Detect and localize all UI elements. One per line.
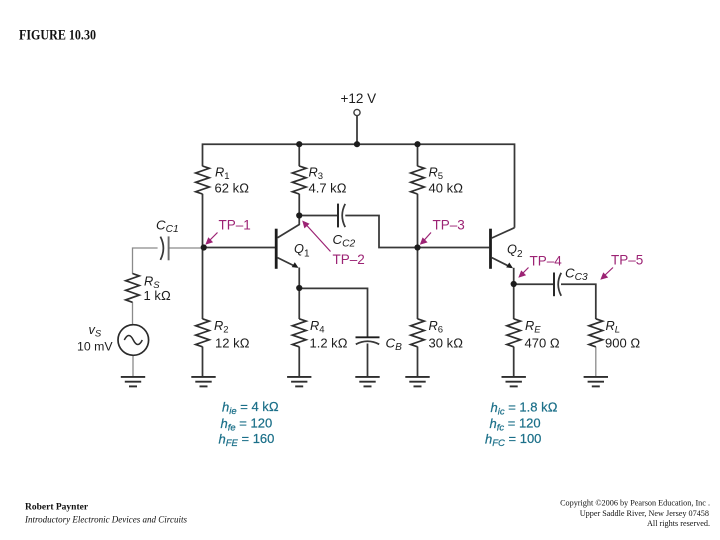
svg-text:Robert Paynter: Robert Paynter (25, 503, 89, 513)
svg-text:hFE = 160: hFE = 160 (219, 431, 275, 449)
svg-text:30 kΩ: 30 kΩ (429, 335, 464, 350)
svg-text:Q2: Q2 (507, 242, 523, 261)
svg-text:CB: CB (386, 336, 403, 354)
svg-text:62 kΩ: 62 kΩ (215, 181, 250, 196)
svg-text:1 kΩ: 1 kΩ (144, 288, 171, 303)
svg-text:CC3: CC3 (565, 266, 588, 284)
svg-text:R6: R6 (429, 318, 444, 336)
svg-text:TP–5: TP–5 (611, 253, 643, 268)
svg-text:900 Ω: 900 Ω (605, 335, 640, 350)
svg-text:Copyright ©2006 by Pearson Edu: Copyright ©2006 by Pearson Education, In… (560, 499, 710, 508)
svg-text:+12 V: +12 V (341, 91, 377, 106)
svg-text:40 kΩ: 40 kΩ (429, 181, 464, 196)
svg-text:CC2: CC2 (333, 232, 356, 250)
svg-text:10 mV: 10 mV (77, 340, 113, 354)
svg-text:R2: R2 (214, 318, 229, 336)
svg-text:12 kΩ: 12 kΩ (215, 335, 250, 350)
svg-text:hFC = 100: hFC = 100 (485, 431, 541, 449)
svg-text:TP–1: TP–1 (219, 218, 251, 233)
svg-text:470 Ω: 470 Ω (525, 335, 560, 350)
svg-text:hie = 4 kΩ: hie = 4 kΩ (222, 399, 279, 417)
svg-text:TP–3: TP–3 (433, 218, 465, 233)
svg-text:TP–4: TP–4 (530, 254, 563, 269)
svg-text:vS: vS (89, 322, 102, 340)
svg-text:TP–2: TP–2 (333, 252, 365, 267)
svg-text:All rights reserved.: All rights reserved. (647, 519, 710, 528)
svg-text:FIGURE 10.30: FIGURE 10.30 (19, 28, 96, 44)
svg-text:RE: RE (525, 318, 541, 336)
svg-text:R3: R3 (309, 165, 324, 183)
svg-text:R1: R1 (215, 165, 230, 183)
svg-text:R4: R4 (310, 318, 325, 336)
svg-text:R5: R5 (429, 165, 444, 183)
svg-text:Introductory Electronic Device: Introductory Electronic Devices and Circ… (24, 515, 187, 525)
svg-text:4.7 kΩ: 4.7 kΩ (309, 181, 347, 196)
svg-text:Upper Saddle River, New Jersey: Upper Saddle River, New Jersey 07458 (580, 509, 709, 518)
svg-text:1.2 kΩ: 1.2 kΩ (310, 335, 348, 350)
svg-text:Q1: Q1 (294, 241, 310, 260)
svg-text:CC1: CC1 (156, 218, 179, 236)
svg-text:RL: RL (606, 318, 621, 336)
